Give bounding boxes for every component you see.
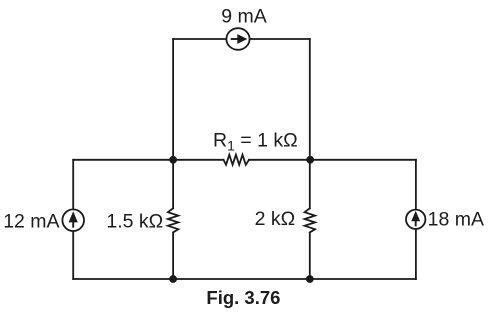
resistor R1 (1 kOhm, horizontal zigzag) <box>224 155 250 165</box>
node dot left-middle <box>169 156 177 164</box>
wire top-right vertical (top loop down to node B) <box>309 39 311 160</box>
current source 12 mA (circle, up arrow) <box>62 209 84 231</box>
wire inner-right below resistor <box>309 232 311 279</box>
svg-text:1.5 kΩ: 1.5 kΩ <box>106 210 163 232</box>
node dot left-bottom <box>169 275 177 283</box>
svg-text:2 kΩ: 2 kΩ <box>255 208 296 230</box>
svg-text:12 mA: 12 mA <box>3 210 59 232</box>
current source 9 mA (circle, right arrow) <box>226 28 249 50</box>
svg-text:18 mA: 18 mA <box>428 209 484 231</box>
wire inner-right above resistor <box>309 160 311 209</box>
node dot right-middle <box>306 156 314 164</box>
wire middle-left (left branch to R1) <box>73 159 223 161</box>
wire bottom horizontal <box>73 278 416 280</box>
svg-text:R1 = 1 kΩ: R1 = 1 kΩ <box>213 130 298 154</box>
wire inner-left above resistor <box>172 160 174 209</box>
svg-text:9 mA: 9 mA <box>221 6 267 28</box>
wire top horizontal <box>173 38 310 40</box>
resistor 1.5 kOhm (vertical zigzag) <box>168 208 178 232</box>
current source 18 mA (circle, up arrow) <box>406 210 425 229</box>
wire left outer branch vertical <box>72 160 74 279</box>
wire inner-left below resistor <box>172 232 174 279</box>
wire right outer branch vertical <box>415 160 417 279</box>
wire middle-right (R1 to right branch) <box>249 159 416 161</box>
wire top-left vertical (node A up to top loop) <box>172 39 174 160</box>
svg-text:Fig. 3.76: Fig. 3.76 <box>206 287 280 308</box>
resistor 2 kOhm (vertical zigzag) <box>305 208 315 232</box>
node dot right-bottom <box>306 275 314 283</box>
